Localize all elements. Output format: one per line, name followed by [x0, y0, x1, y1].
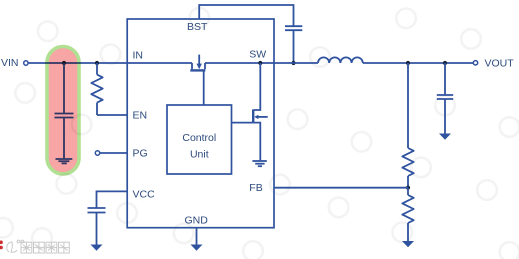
- terminal PG: [95, 151, 99, 155]
- wire BST pin to bootstrap cap: [199, 5, 293, 26]
- node VOUT/R2 junction: [406, 61, 410, 65]
- svg-text:FB: FB: [249, 182, 262, 194]
- svg-text:VIN: VIN: [1, 57, 19, 69]
- node FB junction: [406, 186, 410, 190]
- wire L1 to VOUT: [363, 62, 473, 64]
- svg-text:BST: BST: [187, 21, 208, 33]
- svg-text:Unit: Unit: [190, 149, 209, 161]
- ground (arrow) for C4: [439, 134, 451, 140]
- wire VIN to IC IN pin: [28, 62, 128, 64]
- inductor L1: [318, 57, 363, 63]
- svg-text:VCC: VCC: [133, 188, 156, 200]
- svg-text:Control: Control: [182, 132, 216, 144]
- capacitor C2 (VCC bypass): [88, 208, 106, 245]
- node SW/C3 junction: [291, 61, 295, 65]
- node SW/Q2 junction: [258, 61, 262, 65]
- capacitor C3 (bootstrap): [285, 26, 302, 63]
- ground (arrow) for C2: [91, 245, 103, 251]
- node VIN/REN junction: [95, 61, 99, 65]
- IC U1 body: [127, 19, 274, 228]
- transistor Q1 (high-side MOSFET): [190, 55, 205, 71]
- svg-text:SW: SW: [249, 48, 266, 60]
- resistor R2 (feedback top): [402, 63, 413, 188]
- wire PG: [100, 152, 128, 154]
- wire R1 to EN pin: [97, 114, 128, 116]
- ground (arrow) for GND pin: [191, 245, 203, 251]
- resistor R3 (feedback bottom): [402, 188, 413, 241]
- svg-text:VOUT: VOUT: [485, 57, 515, 69]
- wire GND pin to ground: [196, 228, 198, 245]
- wire Q1 gate to control unit: [203, 71, 205, 105]
- node VOUT/C4 junction: [443, 61, 447, 65]
- wire SW line inside IC to inductor: [205, 62, 318, 64]
- pin and net labels: [1, 21, 514, 227]
- svg-text:EN: EN: [133, 110, 148, 122]
- ground (earth) for C1: [56, 159, 73, 163]
- terminal VOUT: [473, 61, 477, 65]
- watermark logo (red fragment): [0, 241, 3, 250]
- control unit box: [167, 105, 232, 174]
- watermark text: [7, 240, 70, 253]
- wire IN pin to Q1: [128, 62, 192, 64]
- svg-text:PG: PG: [133, 148, 148, 160]
- wire FB pin to divider: [274, 187, 408, 189]
- ground (arrow) for R3: [402, 241, 414, 247]
- node VIN/CIN junction: [62, 61, 66, 65]
- svg-text:GND: GND: [185, 215, 209, 227]
- ground (earth) for Q2 source: [252, 161, 266, 166]
- wire control unit to Q2 gate: [232, 122, 254, 124]
- wire VCC to C2: [97, 191, 129, 207]
- highlight capsule over input capacitor: [47, 47, 79, 175]
- capacitor C1 (input, highlighted): [55, 63, 74, 158]
- capacitor C4 (output): [437, 63, 453, 134]
- svg-text:IN: IN: [133, 50, 144, 62]
- resistor R1 (EN pull-up): [91, 63, 102, 115]
- terminal VIN: [24, 61, 28, 65]
- transistor Q2 (low-side MOSFET): [253, 63, 268, 160]
